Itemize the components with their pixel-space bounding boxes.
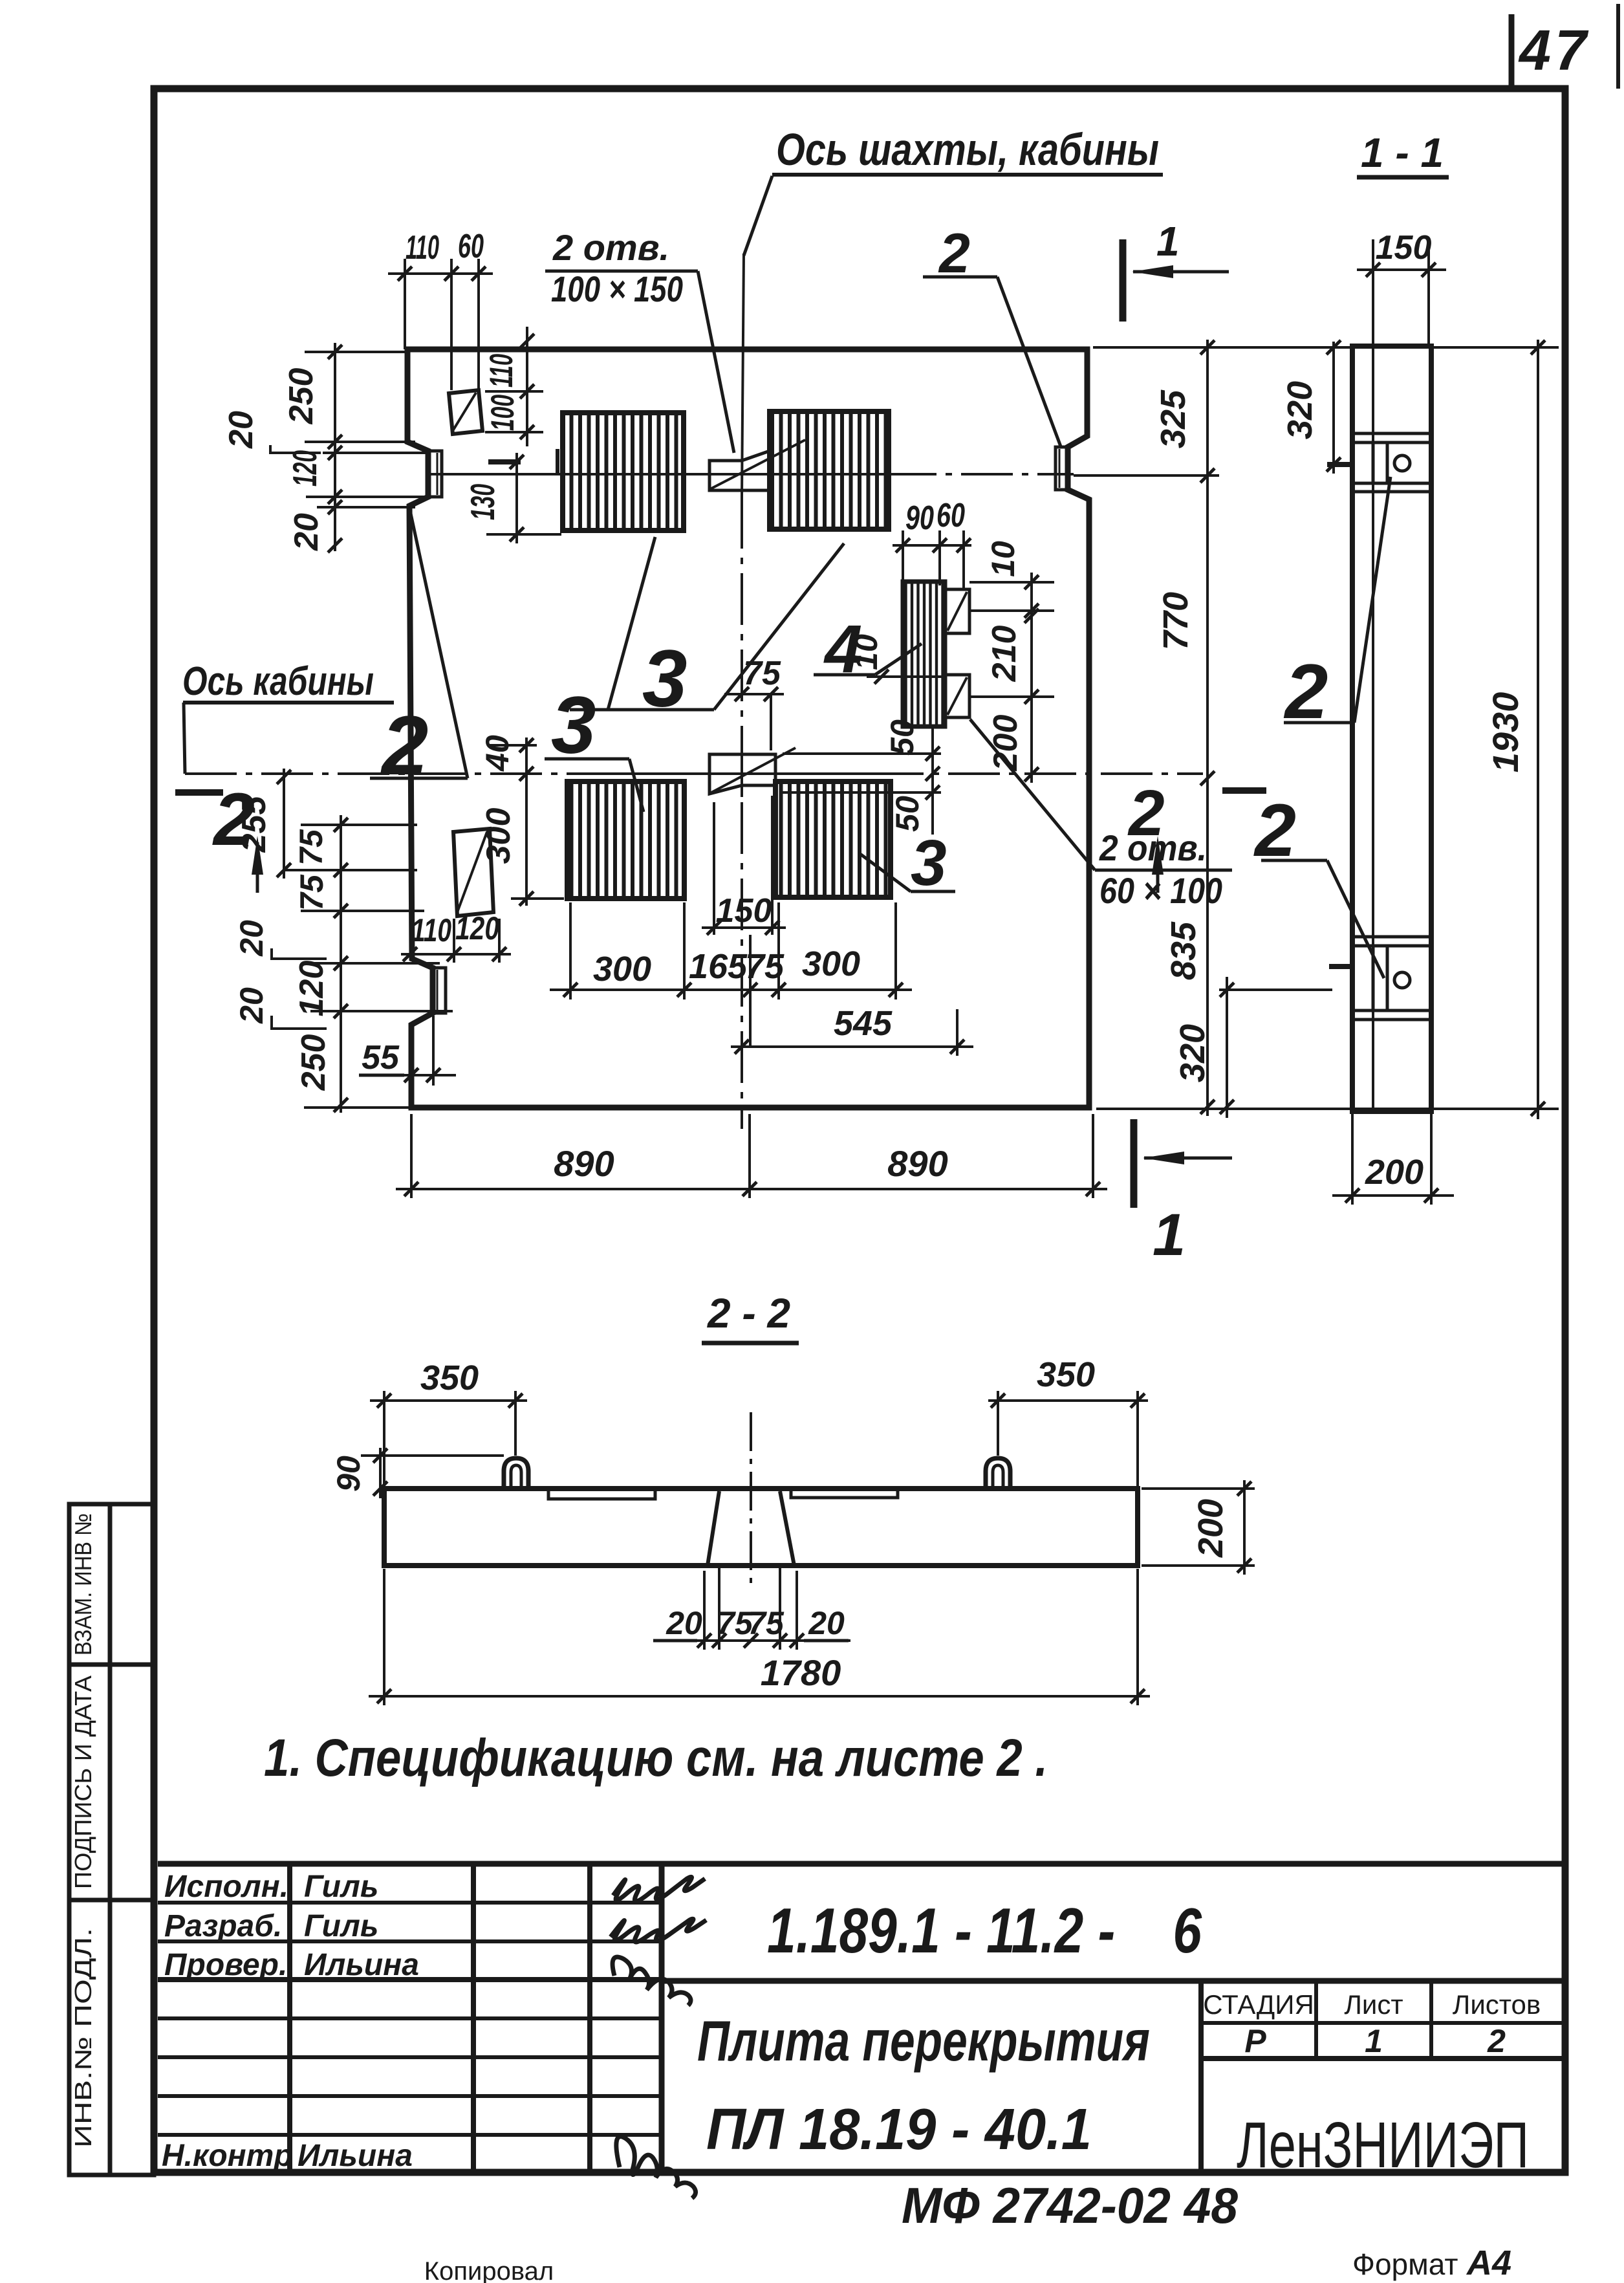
- dim 150 lower center: [702, 926, 786, 929]
- svg-text:120: 120: [293, 961, 330, 1017]
- svg-text:75: 75: [294, 874, 330, 911]
- svg-text:250: 250: [283, 368, 320, 425]
- svg-text:Ильина: Ильина: [304, 1948, 419, 1982]
- svg-text:МФ 2742-02 48: МФ 2742-02 48: [902, 2177, 1239, 2234]
- NOTES: [264, 1729, 1048, 1787]
- sidebar box PODPIS I DATA: [69, 1665, 154, 1900]
- upper hole flag 100x150: [709, 451, 770, 490]
- svg-text:545: 545: [834, 1004, 893, 1043]
- svg-text:20: 20: [808, 1605, 845, 1641]
- dim chain 75-75 120 250 lower-left: [340, 815, 342, 1113]
- svg-text:300: 300: [593, 950, 651, 989]
- svg-text:75: 75: [743, 655, 781, 692]
- stamp sub-table verticals: [1198, 1981, 1204, 2172]
- dim 10 at lower bracket: [867, 675, 945, 678]
- hatched square 3 top-right: [770, 411, 889, 529]
- svg-text:60 × 100: 60 × 100: [1099, 870, 1222, 911]
- svg-text:1. Спецификацию см. на лист: 1. Спецификацию см. на листе 2 .: [264, 1729, 1048, 1787]
- left upper tab detail 2: [428, 451, 442, 497]
- svg-text:Разраб.: Разраб.: [164, 1909, 282, 1943]
- svg-text:100 × 150: 100 × 150: [551, 268, 683, 309]
- dim 55: [387, 1074, 456, 1076]
- right edge tab detail 2: [1056, 447, 1068, 490]
- svg-text:75: 75: [748, 1605, 785, 1641]
- svg-text:ИНВ.№ ПОДЛ.: ИНВ.№ ПОДЛ.: [70, 1928, 96, 2148]
- svg-text:200: 200: [1191, 1499, 1230, 1558]
- svg-text:ПОДПИСЬ И ДАТА: ПОДПИСЬ И ДАТА: [70, 1676, 96, 1889]
- PLAN-DIMS: [222, 228, 1559, 1198]
- dim 890-890 bottom: [396, 1188, 1107, 1190]
- signature table row lines: [158, 1901, 662, 1905]
- svg-text:Провер.: Провер.: [164, 1948, 287, 1982]
- PLAN-VIEW: [175, 124, 1350, 1268]
- upper embed band: [1352, 432, 1431, 435]
- hatched square 3 top-left: [563, 413, 684, 530]
- outer frame border: [154, 89, 1565, 2172]
- section 2-2 slab: [384, 1489, 1138, 1566]
- svg-text:165: 165: [689, 947, 748, 986]
- SECTION-2-2: [330, 1290, 1255, 1705]
- svg-text:2 отв.: 2 отв.: [1099, 827, 1207, 868]
- dim 350 left: [370, 1399, 527, 1402]
- left lower tab detail: [433, 968, 446, 1013]
- svg-text:Лист: Лист: [1344, 1989, 1403, 2020]
- svg-text:1: 1: [1153, 1202, 1186, 1268]
- svg-text:210: 210: [986, 626, 1023, 683]
- SECTION-1-1: [1173, 129, 1545, 1205]
- svg-text:2 - 2: 2 - 2: [707, 1290, 790, 1337]
- svg-text:300: 300: [480, 808, 517, 864]
- dim 200 slab height: [1243, 1480, 1246, 1575]
- svg-text:10: 10: [985, 541, 1021, 577]
- svg-text:50: 50: [884, 719, 920, 756]
- svg-text:Гиль: Гиль: [304, 1870, 378, 1904]
- signature squiggle 3: [612, 1957, 691, 2005]
- svg-text:110: 110: [483, 354, 519, 388]
- dim 40-300 left of lower square: [525, 737, 528, 906]
- dim 350 right: [988, 1399, 1148, 1402]
- svg-text:47: 47: [1518, 18, 1590, 82]
- top plate right: [791, 1489, 898, 1498]
- svg-text:1: 1: [1365, 2023, 1383, 2059]
- svg-text:150: 150: [716, 892, 772, 930]
- svg-text:2: 2: [1487, 2023, 1506, 2059]
- signature squiggle 1: [613, 1877, 705, 1901]
- svg-text:320: 320: [1173, 1024, 1212, 1082]
- sheet edge shadow top right: [1616, 4, 1620, 89]
- title block top edge: [158, 1861, 1562, 1867]
- svg-text:50: 50: [889, 796, 926, 832]
- dim 1780: [369, 1695, 1150, 1698]
- stamp sub-table horizontals: [1201, 2021, 1562, 2025]
- hatched square 3 bottom-left: [567, 781, 684, 899]
- svg-text:1 - 1: 1 - 1: [1361, 129, 1444, 176]
- axis dash near section: [1327, 462, 1350, 467]
- svg-text:2 отв.: 2 отв.: [552, 227, 669, 268]
- svg-text:Ильина: Ильина: [298, 2139, 413, 2173]
- svg-text:3: 3: [911, 827, 947, 899]
- sidebar inner divider: [108, 1504, 113, 2175]
- svg-text:250: 250: [295, 1034, 332, 1091]
- svg-text:890: 890: [887, 1143, 947, 1184]
- section cut mark 1 top: [1120, 239, 1127, 322]
- dim 255 lower-left: [283, 769, 285, 879]
- svg-text:Формат: Формат: [1352, 2247, 1458, 2281]
- upper horizontal axis: [427, 473, 1074, 475]
- dim chain 325-770-835 right: [1206, 340, 1209, 1116]
- dim chain 250-20-120-20 upper-left: [334, 343, 336, 551]
- svg-text:Гиль: Гиль: [304, 1909, 378, 1943]
- lifting loop left: [504, 1458, 528, 1489]
- svg-text:110: 110: [411, 912, 451, 948]
- svg-text:ВЗАМ. ИНВ №: ВЗАМ. ИНВ №: [70, 1513, 96, 1655]
- hole detail D1 top-left: [449, 390, 482, 434]
- element 4 hatched plate: [903, 582, 945, 726]
- dim 90-60 element 4: [893, 544, 971, 547]
- doc number area divider: [662, 1978, 1562, 1984]
- lifting loop right: [986, 1458, 1010, 1489]
- dim 75 center top: [724, 693, 784, 695]
- svg-text:120: 120: [455, 910, 499, 946]
- signature table column lines: [287, 1864, 292, 2172]
- LEFT-SIDEBAR: [69, 1504, 154, 2175]
- element 4 upper bracket: [945, 589, 969, 633]
- svg-text:890: 890: [554, 1143, 614, 1184]
- dim 50-50 center: [931, 725, 934, 835]
- svg-text:Плита перекрытия: Плита перекрытия: [697, 2009, 1150, 2073]
- sidebar box VZAM INV: [69, 1504, 154, 1665]
- dim 150 top of section: [1357, 268, 1446, 271]
- section cut mark 2 left: [175, 789, 223, 796]
- dim 200 bottom of section: [1332, 1194, 1454, 1197]
- svg-text:20: 20: [233, 920, 270, 957]
- svg-text:770: 770: [1156, 592, 1195, 650]
- svg-text:СТАДИЯ: СТАДИЯ: [1203, 1989, 1314, 2020]
- section cut mark 2 right: [1222, 787, 1266, 794]
- dim chain 10-210-200 right of element 4: [1030, 573, 1033, 783]
- element 4 lower bracket: [945, 675, 969, 717]
- svg-text:20: 20: [233, 987, 270, 1024]
- svg-text:120: 120: [287, 450, 324, 486]
- page number divider line top right: [1509, 14, 1515, 89]
- signature squiggle 2: [611, 1919, 706, 1942]
- dim chain 300-165-75-300: [550, 989, 912, 991]
- svg-text:1.189.1 - 11.2 - 6: 1.189.1 - 11.2 - 6: [767, 1895, 1202, 1966]
- dim 90 loop height: [379, 1448, 382, 1498]
- svg-text:Р: Р: [1244, 2023, 1266, 2059]
- svg-text:40: 40: [479, 735, 515, 772]
- dim 545: [731, 1045, 973, 1048]
- svg-text:Ось шахты, кабины: Ось шахты, кабины: [776, 124, 1159, 175]
- svg-text:Исполн.: Исполн.: [164, 1870, 288, 1904]
- svg-text:835: 835: [1164, 921, 1203, 980]
- svg-text:255: 255: [235, 796, 273, 853]
- hatched square 3 bottom-right: [775, 781, 891, 897]
- section cut mark 1 bottom: [1131, 1119, 1138, 1208]
- svg-text:60: 60: [937, 497, 965, 534]
- svg-text:10: 10: [848, 634, 884, 670]
- top plate left: [548, 1489, 655, 1499]
- hole detail D2 left: [453, 829, 493, 916]
- svg-text:55: 55: [362, 1039, 400, 1076]
- section 1-1 slab column: [1352, 346, 1431, 1111]
- lower embed band: [1352, 935, 1431, 939]
- dim 320 upper: [1332, 342, 1335, 474]
- svg-text:А4: А4: [1466, 2244, 1511, 2282]
- dim 20-75-75-20 joint: [658, 1639, 850, 1642]
- svg-text:20: 20: [288, 513, 325, 551]
- svg-text:Ось кабины: Ось кабины: [182, 659, 374, 704]
- svg-text:20: 20: [666, 1605, 702, 1641]
- vertical shaft axis line: [742, 254, 744, 497]
- svg-text:1930: 1930: [1485, 692, 1526, 773]
- svg-text:Н.контр: Н.контр: [162, 2139, 293, 2173]
- svg-text:350: 350: [1037, 1355, 1095, 1394]
- svg-text:75: 75: [293, 829, 329, 866]
- svg-text:130: 130: [464, 484, 502, 520]
- dim 110-120 at hole D2: [401, 953, 511, 956]
- svg-text:325: 325: [1154, 389, 1193, 448]
- sidebar box INV N PODL: [69, 1900, 154, 2175]
- svg-text:200: 200: [1365, 1153, 1424, 1192]
- dim 320 lower: [1226, 977, 1228, 1118]
- lower hole flag 60x100: [709, 754, 775, 794]
- svg-text:60: 60: [458, 228, 484, 265]
- svg-text:100: 100: [484, 395, 521, 431]
- TITLE-BLOCK: [158, 1864, 1562, 2283]
- dim 130: [515, 453, 518, 543]
- svg-text:Копировал: Копировал: [424, 2257, 554, 2283]
- svg-text:90: 90: [905, 499, 934, 537]
- plan slab outline: [407, 349, 1089, 1108]
- dim 1930: [1537, 340, 1539, 1119]
- svg-text:300: 300: [802, 945, 860, 983]
- svg-text:1780: 1780: [761, 1652, 841, 1693]
- svg-text:150: 150: [1376, 229, 1432, 267]
- svg-text:ПЛ 18.19 - 40.1: ПЛ 18.19 - 40.1: [706, 2097, 1092, 2162]
- svg-text:Листов: Листов: [1453, 1989, 1541, 2020]
- short bar left of square S1: [556, 449, 559, 474]
- dim 110-60 top-left: [388, 272, 493, 275]
- center joint key: [708, 1491, 719, 1566]
- svg-text:200: 200: [987, 715, 1024, 772]
- svg-text:ЛенЗНИИЭП: ЛенЗНИИЭП: [1237, 2109, 1529, 2181]
- svg-text:3: 3: [551, 681, 596, 770]
- svg-text:1: 1: [1156, 218, 1180, 265]
- svg-text:320: 320: [1281, 381, 1319, 439]
- svg-text:350: 350: [420, 1359, 479, 1397]
- dim chain 110-100 at hole D1: [526, 327, 528, 446]
- lower horizontal axis Os kabiny: [185, 772, 1203, 775]
- svg-text:75: 75: [745, 947, 785, 986]
- svg-text:90: 90: [330, 1456, 367, 1492]
- svg-text:20: 20: [222, 411, 260, 449]
- svg-text:110: 110: [406, 229, 439, 267]
- signature squiggle 4: [616, 2137, 696, 2198]
